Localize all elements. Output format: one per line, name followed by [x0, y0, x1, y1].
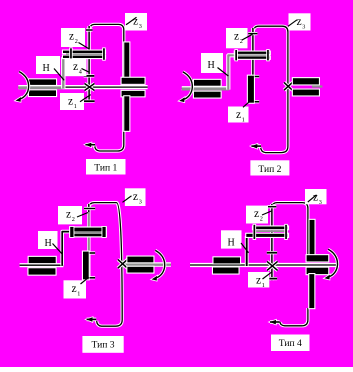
Тип 3: left fixed gear (lower half): [27, 267, 56, 276]
svg-text:z: z: [256, 275, 261, 287]
Тип 1: ring gear lower rim: [123, 95, 130, 132]
Тип 1: ring gear lower flange: [121, 90, 146, 98]
Тип 1: label box z4: [65, 58, 87, 76]
Тип 3: tick on planet shaft (top): [84, 207, 95, 210]
Тип 2: leader z3: [288, 20, 297, 27]
svg-text:z: z: [254, 208, 259, 220]
Тип 2: input gear (upper half): [193, 79, 222, 87]
Тип 4: leader H: [241, 243, 249, 253]
Тип 4: ring gear lower flange: [306, 267, 330, 276]
svg-text:Тип 1: Тип 1: [94, 163, 117, 174]
Тип 4: gear tick above cross: [267, 251, 277, 254]
Тип 4: carrier H link: [245, 236, 249, 266]
Тип 2: input gear (lower half): [193, 91, 222, 99]
svg-text:1: 1: [262, 282, 265, 289]
Тип 2: leader H: [218, 68, 229, 77]
Тип 1: input gear (upper half): [28, 78, 57, 86]
Тип 4: label text z3: [313, 192, 322, 206]
svg-text:1: 1: [77, 290, 80, 297]
svg-text:z: z: [234, 31, 239, 43]
Тип 4: label text z2: [254, 208, 263, 222]
svg-text:3: 3: [319, 199, 322, 206]
Тип 2: leader z1: [243, 101, 250, 107]
svg-text:1: 1: [242, 117, 245, 124]
Тип 1: label box z1: [60, 93, 84, 110]
Тип 1: ring gear upper rim: [123, 41, 130, 79]
Тип 4: tick on planet shaft (top): [268, 205, 277, 208]
Тип 2: bearing cross on ring line: [284, 82, 292, 90]
Тип 3: bearing cross on ring line: [118, 259, 128, 268]
Тип 2: planet shaft: [251, 28, 254, 103]
Тип 3: label text z3: [133, 191, 142, 205]
Тип 2: planet gear z2 block (double bar): [234, 49, 271, 61]
Тип 3: planet gear z2 block (filled): [69, 226, 107, 238]
Тип 3: ring-gear link z3 (top link + right line + output hook arrow): [86, 203, 122, 327]
Тип 4: ring-gear link z3 (top link + upper ring line): [272, 203, 308, 256]
svg-text:H: H: [208, 60, 215, 71]
Тип 3: leader z1: [81, 277, 89, 284]
svg-text:3: 3: [302, 23, 305, 30]
Тип 2: fixed shaft stub (gray): [312, 85, 322, 87]
Тип 4: leader z2: [262, 211, 271, 215]
svg-text:3: 3: [139, 198, 142, 205]
svg-text:z: z: [73, 61, 78, 73]
Тип 1: label text z1: [68, 96, 77, 110]
svg-text:H: H: [45, 238, 52, 249]
Тип 3: left fixed gear (upper half): [28, 256, 57, 264]
Тип 2: carrier H link: [228, 55, 235, 89]
Тип 4: planet gear z2 block (double bar): [245, 224, 289, 240]
svg-text:2: 2: [240, 38, 243, 45]
Тип 4: bearing cross on axis: [267, 261, 278, 270]
Тип 1: bearing cross on axis: [85, 84, 95, 91]
Тип 4: input rotation arrow: [324, 249, 337, 279]
Тип 1: label box H: [36, 56, 60, 74]
Тип 2: sun gear z1 (black block on planet shaft): [247, 75, 255, 104]
Тип 4: label text z1: [256, 275, 265, 289]
Тип 1: caption box: [86, 159, 126, 175]
Тип 4: label text H: [228, 237, 235, 248]
Тип 3: leader z3: [123, 196, 132, 203]
Тип 2: fixed gear (lower half): [292, 89, 320, 97]
Тип 3: caption box: [82, 336, 123, 353]
svg-text:Тип 3: Тип 3: [92, 340, 115, 351]
Тип 1: input rotation arrow: [16, 72, 29, 102]
Тип 3: label box H: [38, 231, 58, 249]
Тип 3: planet shaft: [87, 204, 90, 280]
Тип 1: lower ring line + output hook arrow: [85, 96, 124, 152]
svg-text:Тип 4: Тип 4: [279, 338, 302, 349]
Тип 4: ring gear lower rim: [308, 273, 315, 309]
Тип 3: label box z2: [58, 206, 82, 224]
Тип 3: z1 upper mesh tick: [90, 251, 96, 254]
svg-text:z: z: [297, 16, 302, 28]
Тип 1: leader z3: [126, 17, 137, 25]
Тип 1: leader z4: [82, 69, 89, 72]
Тип 4: left gear (lower half): [212, 266, 240, 274]
Тип 4: label box z2: [246, 206, 268, 224]
Тип 1: main axis shaft: [18, 85, 147, 89]
Тип 2: caption box: [250, 160, 289, 175]
Тип 1: leader z1: [80, 95, 91, 102]
Тип 4: label box z1: [248, 272, 269, 288]
Тип 3: label text z2: [66, 209, 75, 223]
Тип 1: gear z4 tick: [84, 74, 95, 77]
svg-text:z: z: [72, 283, 77, 295]
svg-text:z: z: [68, 96, 73, 108]
svg-text:z: z: [66, 209, 71, 221]
Тип 1: leader H: [54, 69, 64, 81]
svg-text:2: 2: [75, 38, 78, 45]
Тип 4: planet shaft: [270, 204, 273, 280]
Тип 1: ring gear upper flange: [121, 77, 146, 85]
Тип 1: planet shaft: [87, 26, 90, 102]
svg-text:4: 4: [79, 68, 82, 75]
Тип 2: label text z2: [234, 31, 243, 45]
Тип 2: label text z1: [236, 109, 245, 123]
Тип 1: label text H: [43, 63, 50, 74]
Тип 1: label text z4: [73, 61, 82, 75]
Тип 4: leader z3: [308, 195, 317, 202]
svg-text:z: z: [133, 16, 138, 28]
Тип 2: input rotation arrow: [179, 72, 192, 102]
svg-text:H: H: [43, 63, 50, 74]
Тип 4: ring gear upper flange: [306, 254, 330, 262]
Тип 4: ring gear upper rim: [308, 219, 315, 257]
Тип 4: leader z1: [263, 272, 273, 279]
svg-text:z: z: [236, 109, 241, 121]
Тип 1: label text z3: [133, 16, 142, 30]
Тип 1: label text z2: [69, 31, 78, 45]
Тип 2: fixed gear (upper half): [292, 77, 320, 85]
Тип 2: leader z2: [242, 34, 253, 40]
Тип 4: left gear (upper half): [212, 256, 241, 264]
Тип 1: input gear (lower half): [28, 89, 57, 97]
Тип 1: ring-gear link z3 (top link + upper ring line): [89, 24, 124, 78]
Тип 4: main axis shaft: [190, 263, 339, 267]
Тип 4: label box H: [221, 230, 242, 248]
Тип 1: tick on planet shaft (top): [86, 28, 93, 31]
Тип 1: gear z1 tick: [84, 100, 95, 103]
Тип 2: label text z3: [297, 16, 306, 30]
svg-text:Тип 2: Тип 2: [258, 164, 281, 175]
Тип 3: output rotation arrow: [152, 250, 165, 280]
Тип 1: planet gear z2 block (double bar): [62, 47, 106, 60]
Тип 2: ring-gear link z3 (top link + right line + output hook arrow): [251, 26, 288, 152]
Тип 2: label box z3: [289, 13, 311, 30]
Тип 4: caption box: [271, 335, 310, 352]
Тип 2: label box z2: [226, 28, 248, 48]
Тип 3: sun gear z1 (black block on planet shaft): [82, 251, 90, 281]
Тип 2: z1 lower mesh tick: [255, 100, 260, 103]
svg-text:3: 3: [139, 23, 142, 30]
Тип 2: label text H: [208, 60, 215, 71]
svg-text:z: z: [69, 31, 74, 43]
Тип 2: label box H: [201, 53, 223, 73]
svg-text:H: H: [228, 237, 235, 248]
Тип 1: leader z2: [79, 43, 89, 49]
Тип 3: label text z1: [72, 283, 81, 297]
Тип 4: lower ring line + output hook arrow: [270, 308, 308, 326]
Тип 3: carrier H link: [62, 232, 71, 266]
Тип 4: gear z1 tick: [267, 277, 277, 280]
Тип 3: z1 lower mesh tick: [90, 276, 96, 279]
Тип 3: right output shaft (gray): [123, 262, 171, 267]
Тип 3: label text H: [45, 238, 52, 249]
Тип 3: leader z2: [77, 213, 88, 218]
svg-text:z: z: [133, 191, 138, 203]
svg-text:2: 2: [72, 216, 75, 223]
Тип 1: label box z3: [125, 13, 147, 31]
Тип 3: label box z3: [125, 188, 146, 206]
Тип 2: input shaft (gray): [182, 86, 229, 91]
Тип 2: label box z1: [228, 107, 249, 123]
Тип 3: left fixed shaft: [20, 263, 64, 267]
svg-text:z: z: [313, 192, 318, 204]
Тип 3: leader H: [53, 244, 63, 254]
Тип 1: label box z2: [61, 28, 85, 47]
Тип 4: label box z3: [305, 189, 327, 204]
Тип 3: output gear (upper half): [126, 256, 154, 264]
Тип 3: label box z1: [64, 280, 87, 298]
svg-text:1: 1: [74, 103, 77, 110]
svg-text:2: 2: [260, 216, 263, 223]
Тип 2: z1 upper mesh tick: [255, 75, 260, 78]
Тип 3: output gear (lower half): [126, 266, 154, 274]
Тип 1: input shaft (gray): [18, 87, 62, 90]
Тип 2: tick on planet shaft (top): [248, 32, 257, 35]
Тип 1: carrier H link: [61, 57, 65, 88]
